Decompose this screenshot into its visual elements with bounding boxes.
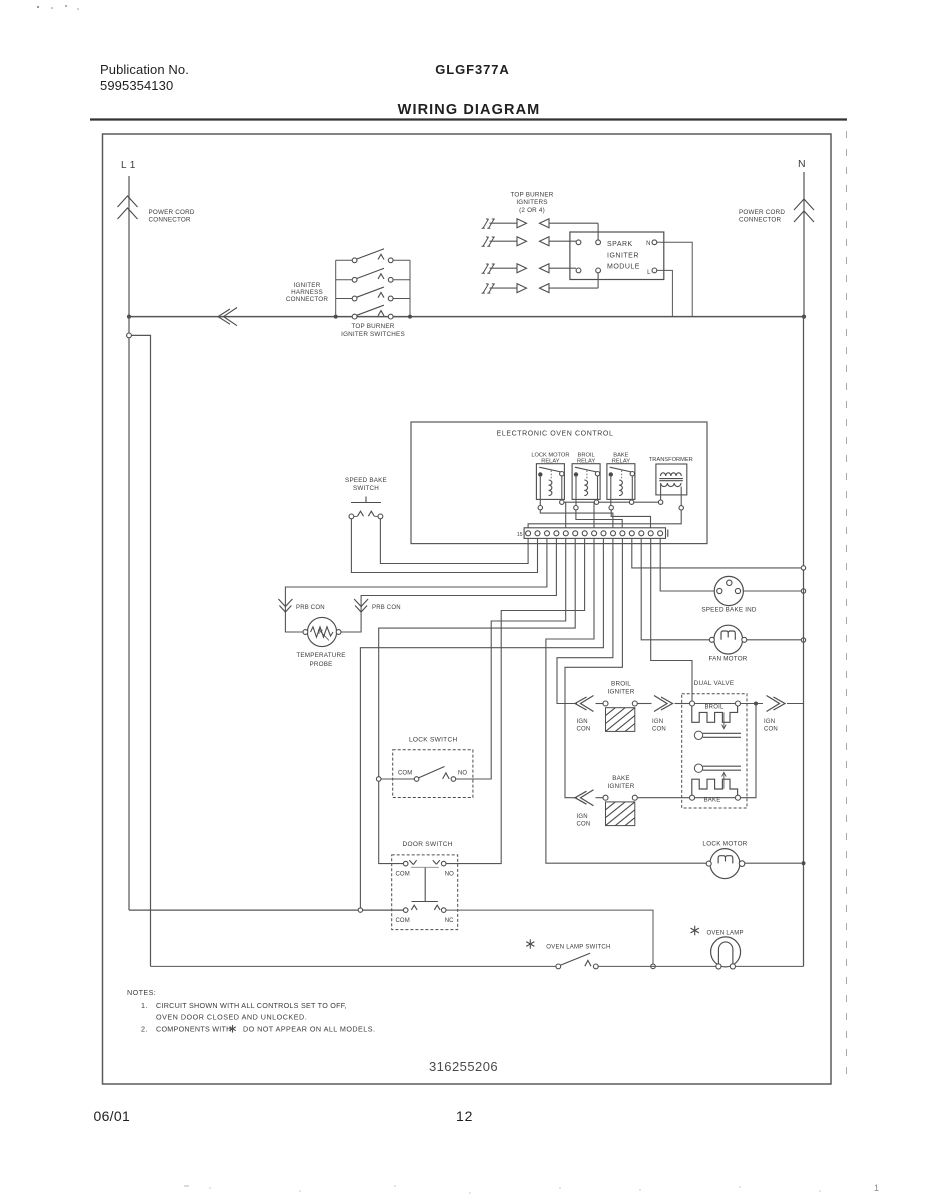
svg-text:SPARK: SPARK — [607, 241, 633, 248]
wire N lead — [803, 172, 805, 317]
diagram border frame — [103, 134, 832, 1084]
wire transformer right pin to terminal 1 — [528, 510, 681, 528]
svg-text:1.: 1. — [141, 1001, 148, 1010]
top burner igniter switches — [335, 260, 337, 316]
svg-text:NO: NO — [458, 771, 467, 777]
svg-text:COM: COM — [396, 918, 410, 924]
svg-text:CON: CON — [577, 727, 591, 733]
probe connector PRB CON left — [278, 599, 292, 607]
wire T12 to N bus — [632, 538, 801, 568]
wire T6 to lock/door switch COM — [379, 538, 576, 776]
svg-text:FAN MOTOR: FAN MOTOR — [708, 656, 747, 663]
pin bake relay coil — [609, 506, 613, 510]
wire bake igniter to bake valve — [637, 797, 689, 799]
svg-text:1: 1 — [874, 1183, 879, 1193]
terminal left branch — [127, 333, 132, 338]
broil valve outlet — [694, 731, 702, 739]
svg-text:12: 12 — [456, 1108, 473, 1124]
svg-text:DO NOT APPEAR ON ALL MODELS.: DO NOT APPEAR ON ALL MODELS. — [243, 1025, 375, 1034]
svg-text:MODULE: MODULE — [607, 264, 640, 271]
svg-text:BAKE: BAKE — [612, 775, 630, 782]
svg-text:POWER CORD: POWER CORD — [149, 209, 195, 216]
wire T11 to bake igniter — [565, 538, 622, 797]
pin bake relay contact — [629, 500, 633, 504]
svg-text:ELECTRONIC OVEN CONTROL: ELECTRONIC OVEN CONTROL — [497, 431, 614, 438]
wire T4 to probe connector right — [341, 538, 557, 632]
svg-text:GLGF377A: GLGF377A — [435, 62, 509, 77]
svg-text:BROIL: BROIL — [704, 705, 723, 711]
svg-text:2.: 2. — [141, 1025, 148, 1034]
door switch S3 — [392, 855, 458, 930]
oven lamp switch S4 — [556, 964, 561, 969]
electronic oven control U1 — [411, 422, 707, 544]
svg-text:CONNECTOR: CONNECTOR — [286, 296, 329, 303]
pin lock relay contact — [560, 500, 564, 504]
wire main L1 bus — [129, 316, 804, 318]
wire T15 to speed bake indicator — [660, 538, 714, 591]
wire T13 to fan motor — [641, 538, 711, 639]
svg-text:LOCK SWITCH: LOCK SWITCH — [409, 737, 457, 744]
temperature probe RT1 — [307, 617, 336, 646]
spark igniter module — [570, 232, 664, 280]
junction lamp bus door NC — [651, 964, 656, 969]
wire common line drop T8 — [593, 502, 595, 528]
svg-text:IGNITERS: IGNITERS — [516, 199, 547, 206]
svg-text:(2 OR 4): (2 OR 4) — [519, 207, 545, 214]
svg-text:TEMPERATURE: TEMPERATURE — [296, 652, 345, 659]
svg-text:OVEN DOOR CLOSED AND UNLOCKED.: OVEN DOOR CLOSED AND UNLOCKED. — [156, 1013, 307, 1022]
door switch actuator — [424, 867, 426, 901]
junction lock switch COM feed — [376, 777, 381, 782]
broil igniter E1 — [596, 703, 603, 705]
wire left L1 branch vertical — [128, 317, 130, 333]
svg-text:IGNITER: IGNITER — [608, 783, 635, 790]
svg-text:CON: CON — [577, 822, 591, 828]
pin broil relay coil — [574, 506, 578, 510]
junction N bus top — [802, 315, 806, 319]
wire N bus vertical — [803, 317, 805, 967]
wire T6 continues to door COM — [379, 781, 404, 863]
svg-text:IGNITER: IGNITER — [608, 689, 635, 696]
svg-text:TOP BURNER: TOP BURNER — [510, 192, 553, 199]
broil valve solenoid — [690, 701, 695, 706]
door switch lower contacts — [403, 908, 408, 913]
svg-text:N: N — [798, 158, 806, 170]
bake valve solenoid — [722, 772, 727, 789]
junction N bus lock motor — [802, 861, 806, 865]
svg-text:POWER CORD: POWER CORD — [739, 209, 785, 216]
svg-text:IGNITER: IGNITER — [607, 253, 639, 260]
svg-text:PROBE: PROBE — [309, 661, 332, 668]
wire spark module L to bus — [657, 270, 673, 316]
wire broil valve to IGN CON right — [741, 703, 764, 705]
wire lamp bus right segment — [735, 965, 804, 967]
svg-text:HARNESS: HARNESS — [291, 289, 323, 296]
svg-text:06/01: 06/01 — [94, 1108, 131, 1124]
svg-text:OVEN LAMP: OVEN LAMP — [707, 931, 744, 937]
junction valve right — [754, 702, 758, 706]
pin transformer right — [679, 506, 683, 510]
svg-text:WIRING DIAGRAM: WIRING DIAGRAM — [398, 102, 541, 118]
junction neutral return — [358, 908, 362, 912]
bake valve outlet — [694, 764, 702, 772]
svg-text:L 1: L 1 — [121, 160, 136, 171]
wire T10 to broil igniter — [557, 538, 613, 703]
wire T5 to lock switch NO — [456, 538, 566, 779]
wire common line drop T5 — [565, 502, 567, 528]
wire lock coil pin to terminal 10 — [540, 510, 613, 528]
pin lock relay coil — [538, 506, 542, 510]
wire bottom COM bus — [129, 909, 403, 911]
svg-text:LOCK MOTOR: LOCK MOTOR — [702, 841, 747, 848]
svg-text:COM: COM — [396, 872, 410, 878]
svg-text:NC: NC — [445, 918, 454, 924]
lock motor M2 — [710, 849, 740, 879]
svg-text:N: N — [646, 241, 651, 247]
wire T9 to neutral return junction — [360, 538, 603, 908]
junction N bus speed bake — [801, 589, 805, 593]
svg-text:DOOR SWITCH: DOOR SWITCH — [403, 841, 453, 848]
connector IGN CON broil left — [581, 696, 594, 712]
svg-text:CONNECTOR: CONNECTOR — [739, 217, 782, 224]
pin broil relay contact — [594, 500, 598, 504]
svg-text:BAKE: BAKE — [704, 798, 721, 804]
svg-text:COM: COM — [398, 771, 412, 777]
fan motor M1 — [714, 625, 743, 654]
svg-text:IGN: IGN — [577, 814, 588, 820]
svg-text:IGNITER: IGNITER — [294, 282, 321, 289]
wire door NC to lamp bus — [446, 910, 653, 964]
svg-text:TOP BURNER: TOP BURNER — [351, 323, 394, 330]
wire fan motor to N bus — [747, 639, 801, 641]
svg-text:IGN: IGN — [764, 719, 775, 725]
svg-text:SPEED BAKE: SPEED BAKE — [345, 477, 387, 484]
svg-text:SPEED BAKE IND: SPEED BAKE IND — [701, 607, 757, 614]
dual valve box — [682, 694, 747, 808]
wire spark module N to bus — [657, 242, 692, 316]
connector IGN CON bake left — [581, 790, 594, 806]
power cord connector right — [794, 199, 814, 210]
pin L of spark module — [652, 268, 657, 273]
pin N of spark module — [652, 240, 657, 245]
svg-text:CIRCUIT SHOWN WITH ALL CONTROL: CIRCUIT SHOWN WITH ALL CONTROLS SET TO O… — [156, 1001, 347, 1010]
connector IGN CON broil right — [637, 703, 651, 705]
wire T3 to probe connector left — [285, 538, 547, 632]
wire T14 to broil valve — [651, 538, 692, 701]
wire left branch to lamp bus — [131, 335, 150, 966]
wire speed bake indicator to N bus — [743, 590, 801, 592]
wire L1 lead — [128, 176, 130, 317]
svg-text:IGN: IGN — [652, 719, 663, 725]
probe connector PRB CON right — [354, 599, 368, 607]
svg-text:NOTES:: NOTES: — [127, 988, 156, 997]
wire lamp bus left segment — [151, 965, 556, 967]
svg-text:COMPONENTS WITH: COMPONENTS WITH — [156, 1025, 232, 1034]
svg-text:CON: CON — [764, 727, 778, 733]
svg-text:SWITCH: SWITCH — [353, 485, 379, 492]
wire T8 to lock motor — [546, 538, 707, 863]
wire valve right vertical — [741, 704, 757, 798]
top burner igniters — [482, 219, 495, 228]
svg-text:BROIL: BROIL — [611, 681, 631, 688]
wire T1 to speed bake switch right — [380, 519, 528, 564]
wire T2 to speed bake switch left — [351, 519, 537, 573]
svg-text:CONNECTOR: CONNECTOR — [149, 217, 192, 224]
terminal strip P1 — [524, 528, 665, 539]
svg-text:L: L — [647, 270, 651, 276]
svg-text:IGNITER SWITCHES: IGNITER SWITCHES — [341, 331, 405, 338]
wire lock motor to N bus — [745, 862, 802, 864]
connector IGN CON valve right — [767, 696, 780, 712]
svg-text:CON: CON — [652, 727, 666, 733]
svg-text:DUAL VALVE: DUAL VALVE — [694, 680, 735, 687]
svg-text:PRB CON: PRB CON — [372, 605, 401, 611]
wire T7 to door switch NO — [446, 538, 585, 863]
svg-text:Publication No.: Publication No. — [100, 62, 189, 77]
wire broil coil pin to terminal 11 — [576, 510, 622, 528]
bake igniter E2 — [596, 797, 603, 799]
wire IGN CON right to N bus — [787, 703, 804, 705]
svg-text:NO: NO — [445, 872, 454, 878]
svg-text:15: 15 — [517, 532, 523, 538]
oven lamp DS2 — [711, 937, 741, 967]
scan specks — [37, 6, 39, 8]
junction N bus T12 — [801, 566, 805, 570]
lock switch S2 — [393, 750, 473, 798]
svg-text:PRB CON: PRB CON — [296, 605, 325, 611]
igniter harness connector — [224, 308, 238, 326]
power cord connector left — [118, 196, 138, 207]
svg-text:316255206: 316255206 — [429, 1059, 498, 1074]
page edge shadow — [846, 131, 848, 1085]
svg-text:5995354130: 5995354130 — [100, 78, 173, 93]
speed bake indicator DS1 — [714, 576, 743, 605]
svg-text:OVEN LAMP SWITCH: OVEN LAMP SWITCH — [546, 944, 610, 950]
wire bake coil pin to terminal 14 — [611, 510, 650, 528]
pin transformer left — [658, 500, 662, 504]
node relay common line — [562, 501, 661, 503]
svg-text:IGN: IGN — [577, 719, 588, 725]
svg-text:TRANSFORMER: TRANSFORMER — [649, 457, 693, 463]
wire lamp bus middle segment — [598, 965, 716, 967]
junction L1 bus left — [127, 315, 131, 319]
junction N bus fan motor — [801, 638, 805, 642]
